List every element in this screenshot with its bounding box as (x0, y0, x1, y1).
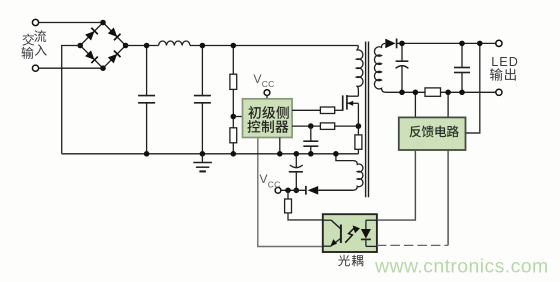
capacitor C2 (194, 43, 211, 157)
opto light arrow (345, 225, 360, 242)
resistor R6 (output shunt) (425, 88, 441, 96)
terminal J1 (AC input top) (32, 19, 38, 25)
label: Vcc (253, 72, 274, 89)
wire: tap to controller left pin (233, 116, 242, 118)
node: C3 tap on R4 wire (308, 123, 314, 129)
wire: DC+ rail from inductor to transformer (190, 45, 358, 47)
node: bridge right vertex (DC+) (123, 43, 129, 49)
resistor R4 (sense feedback) (320, 123, 334, 129)
wire: - rail to feedback pin 2 (445, 90, 451, 118)
wire: R3 to gate (335, 109, 343, 111)
wire: ground rail (bottom) (62, 153, 359, 155)
wire: R1 to R2 (232, 89, 234, 127)
wire: rail down to R1 (231, 43, 237, 74)
diode D6 (Vcc rectifier) (306, 186, 318, 195)
opto phototransistor (323, 220, 341, 246)
bridge diode D2 (top-to-right) (108, 27, 121, 40)
op-amp U1: primary-side controller box (初级侧控制器) (243, 99, 293, 138)
wire: J1 to bridge top (39, 22, 103, 24)
wire: source node to R5 (357, 126, 359, 135)
wire: Vcc node line (281, 189, 306, 191)
svg-text:CC: CC (268, 179, 281, 189)
opto LED (361, 220, 377, 246)
node: bridge top vertex (100, 20, 106, 26)
wire: D6 to aux winding (318, 189, 353, 191)
node: MOSFET source / R4 / R5 junction (356, 123, 362, 129)
node: bridge bottom vertex (100, 65, 106, 71)
wire: opto collector-side to feedback pin1 (377, 150, 416, 220)
node: aux top on ground rail (333, 151, 339, 157)
wire: - rail to feedback pin 1 (413, 90, 419, 118)
terminal J2 (AC input bottom) (32, 65, 38, 71)
svg-text:LED: LED (491, 55, 519, 69)
wire: output + rail (397, 42, 496, 44)
terminal J3 (LED output +) (496, 40, 502, 46)
svg-text:www.cntronics.com: www.cntronics.com (374, 256, 549, 278)
bridge rectifier BR1 (77, 20, 128, 71)
terminal TP2 (Vcc aux) (275, 187, 281, 193)
inductor L1 (159, 41, 190, 45)
bridge diode D4 (bottom-to-right) (108, 51, 121, 64)
resistor R7 (285, 199, 292, 213)
resistor R1 (230, 74, 237, 89)
capacitor C4 (polarized output) (396, 41, 409, 95)
wire: bridge DC- left then down to ground rail (62, 46, 80, 154)
wire: R7 down leg (287, 190, 289, 199)
terminal J4 (LED output -) (496, 89, 502, 95)
capacitor C6 (Vcc, polarized) (289, 151, 303, 193)
node: C2 bottom (200, 151, 206, 157)
node: R7 tap (285, 188, 291, 194)
resistor R5 (current sense) (355, 135, 362, 149)
capacitor C5 (output) (454, 41, 470, 95)
optocoupler U2 box (323, 214, 377, 252)
transformer T1 secondary winding (374, 43, 385, 92)
ground (193, 154, 212, 172)
wire: feedback right to + rail (466, 41, 483, 133)
wire: R2 to ground rail (231, 143, 237, 157)
label: LED output (LED 输出) (490, 55, 519, 80)
resistor R3 (gate) (320, 107, 334, 114)
node A: controller supply tap (231, 114, 237, 120)
wire: J2 to bridge bottom (39, 67, 103, 69)
node: C2 top (200, 43, 206, 49)
label: optocoupler (光耦) (338, 255, 363, 267)
wire: controller to R3 (292, 109, 320, 111)
wire: DC+ rail from bridge to inductor (126, 45, 159, 47)
label: Vcc (aux) (259, 172, 280, 190)
wire: controller ground pin to rail (277, 138, 283, 157)
watermark (374, 256, 549, 278)
bridge diode D1 (left-to-top) (85, 28, 98, 41)
wire: R5 to ground rail corner (357, 149, 359, 154)
transformer T1 auxiliary winding (318, 151, 363, 190)
wire: controller ground to opto emitter (gray loop) (258, 138, 323, 247)
transformer T1 primary winding (356, 46, 363, 93)
wire: R7 to optocoupler collector (288, 213, 323, 220)
diode D5 (output rectifier) (385, 39, 396, 49)
capacitor C3 (303, 126, 318, 157)
capacitor C1 (138, 43, 155, 157)
wire: opto cathode-side to feedback pin2 (broken by watermark) (377, 150, 448, 245)
svg-text:CC: CC (262, 79, 275, 89)
resistor R2 (230, 128, 237, 143)
transformer T1 core (366, 42, 369, 198)
node: bridge left vertex (DC-) (77, 43, 83, 49)
wire: controller to R4 (292, 125, 320, 127)
bridge diode D3 (left-to-bottom) (85, 50, 98, 63)
wire: output - rail (386, 91, 496, 93)
wire: R4 to source node (335, 125, 359, 127)
node: C1 top (144, 43, 150, 49)
terminal TP1 (Vcc) (264, 90, 270, 99)
transistor Q1 (power MOSFET) (343, 92, 359, 126)
node: C1 bottom (144, 151, 150, 157)
op-amp U3: feedback circuit box (反馈电路) (399, 117, 466, 150)
label: AC input (交流输入) (21, 30, 46, 59)
